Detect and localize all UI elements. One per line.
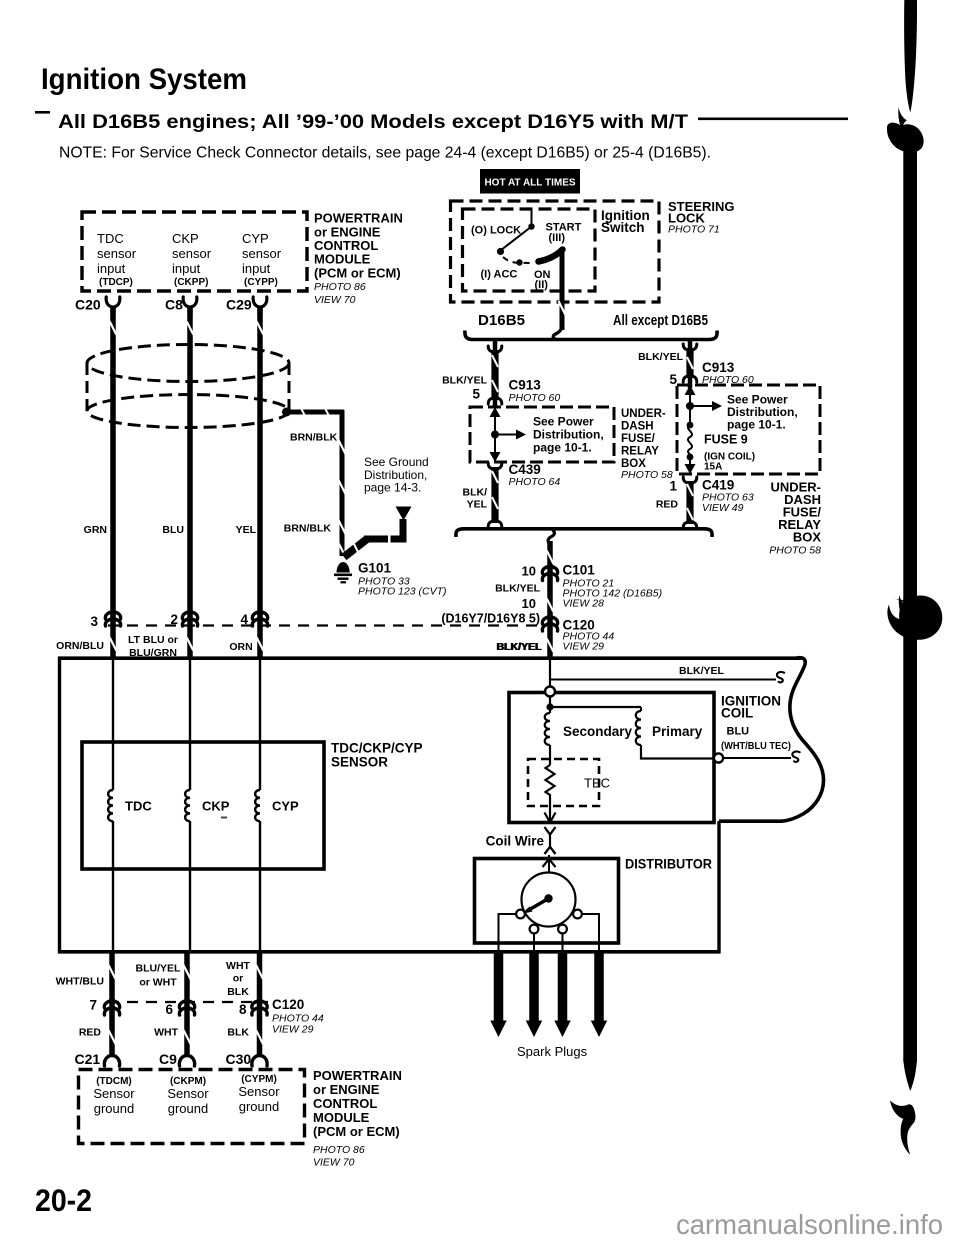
big box right edge — [717, 821, 720, 953]
svg-text:3: 3 — [90, 614, 98, 629]
CYP pickup coil — [255, 790, 260, 821]
svg-text:BRN/BLK: BRN/BLK — [290, 432, 338, 444]
big box bottom edge — [58, 950, 721, 954]
svg-text:POWERTRAIN: POWERTRAIN — [313, 1068, 402, 1083]
wire CYP inside box — [259, 658, 261, 790]
svg-text:MODULE: MODULE — [314, 252, 371, 267]
arrow right — [495, 434, 517, 436]
svg-text:D16B5: D16B5 — [478, 313, 525, 329]
svg-text:Sensor: Sensor — [167, 1086, 209, 1101]
ignition coil box — [509, 693, 714, 823]
svg-text:COIL: COIL — [721, 706, 753, 721]
wire left branch — [493, 339, 498, 408]
wire C120 to big box — [547, 639, 554, 652]
svg-text:Spark Plugs: Spark Plugs — [517, 1044, 588, 1059]
svg-text:LT BLU or: LT BLU or — [128, 634, 178, 646]
BLU line to squiggle — [723, 757, 791, 759]
svg-text:RED: RED — [79, 1027, 102, 1039]
switch: pivot dot — [528, 223, 534, 229]
svg-text:See Ground: See Ground — [364, 455, 429, 469]
junction dot C (fuse bottom) — [687, 454, 694, 461]
svg-text:ORN: ORN — [229, 641, 252, 653]
connector pinch wire2 — [182, 612, 197, 619]
coil wire symbols — [545, 827, 556, 835]
svg-text:TEC: TEC — [584, 776, 610, 791]
fork connector C29 — [253, 297, 259, 307]
wire C101-C120 — [547, 599, 554, 612]
svg-text:Switch: Switch — [601, 220, 645, 235]
svg-text:C30: C30 — [226, 1051, 252, 1067]
ground branch: bar 2 + riser — [391, 536, 407, 543]
svg-text:(II): (II) — [535, 279, 549, 291]
svg-text:15A: 15A — [704, 462, 722, 473]
distributor box — [475, 859, 619, 944]
gutter hook (bottom) — [890, 1101, 915, 1155]
wire TDC inside box — [112, 658, 114, 790]
svg-text:CKP: CKP — [202, 799, 230, 814]
svg-text:or WHT: or WHT — [139, 977, 177, 989]
svg-text:BLK/YEL: BLK/YEL — [638, 351, 684, 363]
connector C101 — [542, 567, 557, 574]
svg-text:or ENGINE: or ENGINE — [313, 1082, 380, 1097]
wire right branch — [688, 339, 693, 388]
gutter bar (upper) — [903, 143, 917, 600]
svg-text:VIEW 70: VIEW 70 — [313, 1157, 355, 1169]
ground branch: diagonal — [344, 539, 367, 557]
svg-text:(CKPP): (CKPP) — [174, 277, 208, 288]
svg-text:7: 7 — [89, 998, 97, 1013]
svg-text:PHOTO 60: PHOTO 60 — [702, 374, 754, 386]
svg-text:10: 10 — [522, 596, 536, 611]
svg-text:ORN/BLU: ORN/BLU — [56, 640, 104, 652]
steering lock outer dashed box — [451, 201, 660, 302]
svg-text:PHOTO 123 (CVT): PHOTO 123 (CVT) — [358, 586, 447, 598]
primary winding — [640, 707, 642, 711]
subheading rule — [698, 118, 848, 121]
switch: feed stub from box top — [531, 209, 533, 226]
secondary winding — [545, 713, 550, 745]
svg-text:PHOTO 58: PHOTO 58 — [621, 469, 673, 481]
switch: dashed travel arc with ACC dot — [503, 257, 531, 263]
svg-text:BLK: BLK — [227, 986, 249, 998]
svg-text:(WHT/BLU TEC): (WHT/BLU TEC) — [721, 740, 791, 752]
spark plug wire 1 with arrow — [494, 954, 504, 1021]
junction dot B (fuse top) — [687, 422, 694, 429]
svg-text:C913: C913 — [509, 378, 542, 393]
svg-text:BLU/YEL: BLU/YEL — [136, 963, 182, 975]
wire sensor 1 upper — [110, 317, 116, 658]
ground wire 1 — [109, 953, 115, 1056]
TEC dashed box — [528, 759, 599, 806]
BRN/BLK shield drain: vertical — [340, 410, 345, 556]
wire sensor 3 upper — [257, 317, 263, 658]
switch: arm to LOCK contact — [501, 227, 532, 251]
primary top link — [550, 706, 641, 708]
svg-text:C419: C419 — [702, 478, 734, 493]
ground wire 3 — [257, 953, 263, 1056]
fork connector C20 — [106, 297, 112, 307]
wire cap lead 3 — [562, 934, 564, 952]
switch: contact blade arc (ON/START) — [539, 250, 563, 262]
svg-text:DISTRIBUTOR: DISTRIBUTOR — [625, 857, 712, 872]
ground wire 2 — [184, 953, 190, 1056]
svg-text:6: 6 — [165, 1002, 173, 1017]
svg-text:YEL: YEL — [236, 524, 257, 536]
G101 ground symbol — [337, 562, 350, 573]
C120 dashed line (bottom) — [108, 1001, 268, 1003]
svg-text:TDC: TDC — [97, 231, 124, 246]
connector C120 — [542, 617, 557, 624]
arrow down — [490, 452, 501, 462]
svg-text:RED: RED — [656, 499, 679, 511]
svg-text:(O) LOCK: (O) LOCK — [471, 225, 521, 237]
BLK/YEL branch line — [550, 679, 776, 681]
wire sensor 1 to big box — [110, 638, 117, 651]
junction dot — [491, 431, 499, 439]
svg-text:BLU: BLU — [727, 726, 750, 738]
primary bottom link — [641, 745, 714, 759]
svg-text:PHOTO 60: PHOTO 60 — [509, 392, 561, 404]
svg-text:BLK: BLK — [227, 1027, 249, 1039]
switch: LOCK contact dot — [497, 248, 504, 255]
wire cap lead 2 — [533, 934, 535, 952]
svg-text:TDC: TDC — [125, 799, 152, 814]
svg-text:PHOTO 86: PHOTO 86 — [313, 1144, 365, 1156]
svg-text:(D16Y7/D16Y8 5): (D16Y7/D16Y8 5) — [441, 612, 540, 626]
svg-text:input: input — [172, 261, 201, 276]
svg-text:input: input — [242, 261, 271, 276]
connector C120 pin 7 interface — [104, 1001, 119, 1008]
svg-text:Distribution,: Distribution, — [533, 428, 604, 442]
gutter curl (top) — [898, 108, 907, 130]
svg-text:YEL: YEL — [467, 499, 488, 511]
svg-text:input: input — [97, 261, 126, 276]
wire CKP inside box — [189, 658, 191, 790]
wire end feet at C21 — [109, 1030, 116, 1044]
gutter taper tip — [903, 1058, 917, 1091]
TEC resistor — [546, 765, 555, 798]
coil top terminal — [545, 687, 555, 697]
spark plug wire 4 with arrow — [594, 954, 604, 1021]
junction dot A (fuse box tap) — [686, 402, 694, 410]
top option bracket — [465, 331, 717, 340]
svg-text:CKP: CKP — [172, 231, 199, 246]
arrow right — [690, 405, 713, 407]
shield junction dot — [282, 408, 291, 417]
svg-text:RELAY: RELAY — [621, 446, 659, 458]
svg-text:VIEW 29: VIEW 29 — [563, 641, 605, 653]
svg-text:sensor: sensor — [97, 246, 137, 261]
svg-text:page 10-1.: page 10-1. — [727, 418, 786, 432]
svg-text:C21: C21 — [75, 1051, 101, 1067]
cap contact circle 3 — [558, 925, 567, 934]
PCM ground dashed box — [79, 1070, 305, 1144]
connector C913 (left) — [491, 350, 498, 400]
svg-text:CONTROL: CONTROL — [313, 1096, 377, 1111]
svg-text:Sensor: Sensor — [238, 1084, 280, 1099]
wire sensor 3 to big box — [257, 638, 264, 651]
svg-text:(PCM or ECM): (PCM or ECM) — [314, 266, 401, 281]
svg-text:page 10-1.: page 10-1. — [533, 441, 592, 455]
wire cap lead 1 — [499, 914, 517, 951]
svg-text:HOT AT ALL TIMES: HOT AT ALL TIMES — [484, 178, 575, 189]
svg-text:C8: C8 — [165, 297, 183, 313]
C120 dashed connector line — [108, 624, 545, 626]
svg-text:CYP: CYP — [242, 231, 269, 246]
svg-text:C9: C9 — [159, 1051, 177, 1067]
svg-text:C913: C913 — [702, 360, 735, 375]
secondary line into TEC — [549, 745, 551, 765]
svg-text:1: 1 — [669, 479, 677, 494]
svg-text:10: 10 — [522, 564, 536, 579]
svg-text:(I) ACC: (I) ACC — [481, 269, 518, 281]
cap contact circle 1 — [516, 910, 525, 919]
svg-text:VIEW 49: VIEW 49 — [702, 502, 744, 514]
svg-text:Ignition System: Ignition System — [41, 63, 247, 96]
svg-text:PHOTO 64: PHOTO 64 — [509, 476, 561, 488]
svg-text:UNDER-: UNDER- — [621, 408, 666, 420]
svg-text:(PCM or ECM): (PCM or ECM) — [313, 1124, 400, 1139]
svg-text:(CYPP): (CYPP) — [244, 277, 278, 288]
wire sensor 2 upper — [187, 317, 193, 658]
svg-text:BRN/BLK: BRN/BLK — [284, 523, 332, 535]
connector C439 — [491, 467, 498, 523]
connector C419 — [686, 481, 693, 524]
svg-text:POWERTRAIN: POWERTRAIN — [314, 211, 403, 226]
rotor circle — [522, 873, 576, 927]
connector C913 (right) — [686, 348, 693, 378]
svg-text:PHOTO 58: PHOTO 58 — [769, 545, 821, 557]
coil side terminal — [714, 753, 723, 762]
ground branch: bar 1 — [364, 536, 388, 543]
svg-text:5: 5 — [472, 387, 480, 402]
switch output wire — [560, 250, 565, 330]
connector C120 pin 8 interface — [252, 1001, 267, 1008]
svg-text:BLK/YEL: BLK/YEL — [495, 583, 541, 595]
svg-text:PHOTO 86: PHOTO 86 — [314, 281, 366, 293]
svg-text:C29: C29 — [226, 297, 252, 313]
svg-text:NOTE: For Service Check Connec: NOTE: For Service Check Connector detail… — [59, 145, 711, 162]
rotor feed line + arrow — [548, 855, 550, 896]
svg-text:WHT: WHT — [226, 960, 250, 972]
svg-text:MODULE: MODULE — [313, 1110, 370, 1125]
svg-text:ground: ground — [239, 1099, 279, 1114]
svg-text:carmanualsonline.info: carmanualsonline.info — [676, 1209, 943, 1240]
svg-text:VIEW 29: VIEW 29 — [272, 1024, 314, 1036]
internal arrow up — [494, 410, 496, 462]
svg-text:FUSE 9: FUSE 9 — [704, 433, 748, 447]
wire to C101 — [547, 541, 553, 658]
svg-text:FUSE/: FUSE/ — [621, 433, 656, 445]
shield cylinder left side — [86, 363, 89, 411]
svg-text:DASH: DASH — [621, 421, 654, 433]
svg-text:C101: C101 — [563, 563, 596, 578]
svg-text:Sensor: Sensor — [93, 1086, 135, 1101]
svg-text:ground: ground — [94, 1101, 134, 1116]
svg-text:BOX: BOX — [793, 530, 822, 545]
svg-text:Coil Wire: Coil Wire — [486, 834, 545, 849]
stray mark — [221, 817, 227, 819]
rotor center dot — [544, 894, 552, 902]
hot-at-all-times box — [480, 169, 580, 194]
ignition switch inner dashed box — [463, 209, 596, 291]
svg-text:SENSOR: SENSOR — [331, 755, 388, 770]
svg-text:(III): (III) — [549, 232, 566, 244]
svg-text:TDC/CKP/CYP: TDC/CKP/CYP — [331, 741, 423, 756]
BRN/BLK shield drain: horizontal — [289, 410, 344, 415]
junction dot under terminal — [549, 696, 551, 713]
cap contact circle 2 — [530, 925, 539, 934]
bracket pigtail down — [548, 530, 554, 544]
connector C120 pin 6 interface — [179, 1001, 194, 1008]
internal line + arrow up — [689, 388, 691, 425]
CKP pickup coil — [185, 790, 190, 821]
big box top edge — [58, 656, 801, 660]
svg-text:C20: C20 — [75, 297, 101, 313]
squiggle end BLK/YEL — [777, 672, 784, 682]
rotor arm — [527, 899, 549, 912]
torn page bottom edge — [719, 819, 783, 823]
svg-text:See Power: See Power — [533, 415, 594, 429]
tick dash left of subheading — [35, 111, 50, 114]
torn page curve — [781, 658, 824, 822]
big box left edge — [58, 657, 61, 954]
spark plug wire 3 with arrow — [558, 954, 568, 1021]
svg-text:All except D16B5: All except D16B5 — [613, 313, 708, 329]
TDC pickup coil — [108, 790, 113, 821]
svg-text:PHOTO 71: PHOTO 71 — [668, 224, 720, 236]
line + arrow down — [689, 457, 691, 471]
svg-text:BLU: BLU — [162, 524, 184, 536]
wire cap lead 4 — [582, 914, 599, 951]
svg-text:or: or — [233, 973, 244, 985]
wire sensor 2 to big box — [187, 638, 194, 651]
svg-text:BLK/YEL: BLK/YEL — [442, 375, 488, 387]
svg-text:WHT/BLU: WHT/BLU — [56, 976, 104, 988]
svg-text:20-2: 20-2 — [35, 1182, 92, 1218]
wire end feet at C9 — [184, 1030, 191, 1044]
svg-text:(TDCP): (TDCP) — [99, 277, 133, 288]
shield cylinder bottom ellipse — [87, 395, 289, 428]
svg-text:VIEW 28: VIEW 28 — [563, 598, 605, 610]
gutter blob (middle) — [887, 595, 942, 639]
see power distribution dashed box (left) — [470, 407, 614, 462]
sensor box — [82, 742, 324, 869]
ground branch: arrowhead down — [396, 507, 412, 521]
svg-text:sensor: sensor — [172, 246, 212, 261]
svg-text:WHT: WHT — [154, 1027, 178, 1039]
spark plug wire 2 with arrow — [529, 954, 539, 1021]
shield cylinder right side — [288, 363, 291, 411]
PCM dashed box (top) — [82, 212, 307, 291]
bracket pigtail to switch wire — [553, 323, 562, 339]
svg-text:C439: C439 — [509, 462, 541, 477]
fuse element — [688, 425, 692, 457]
BLK/YEL feed line inside box — [549, 658, 551, 687]
svg-text:BLK/: BLK/ — [463, 487, 488, 499]
fork connector C8 — [183, 297, 189, 307]
shield cylinder top ellipse — [87, 345, 289, 382]
gutter bar (lower) — [903, 598, 917, 1062]
svg-text:All D16B5 engines; All ’99-’00: All D16B5 engines; All ’99-’00 Models ex… — [58, 111, 688, 133]
svg-text:8: 8 — [239, 1002, 247, 1017]
svg-text:ground: ground — [168, 1101, 208, 1116]
svg-text:GRN: GRN — [84, 524, 107, 536]
secondary output + arrow — [549, 798, 551, 821]
bottom option bracket — [456, 529, 712, 537]
connector pinch wire1 — [105, 612, 120, 619]
cap contact circle 4 — [573, 910, 582, 919]
svg-text:BLK/YEL: BLK/YEL — [679, 665, 725, 677]
svg-text:G101: G101 — [358, 561, 392, 576]
gutter spike (top) — [904, 0, 917, 113]
connector pinch wire3 — [252, 612, 267, 619]
svg-text:CYP: CYP — [272, 799, 299, 814]
wire end feet at C30 — [256, 1030, 263, 1044]
svg-text:VIEW 70: VIEW 70 — [314, 294, 356, 306]
svg-text:sensor: sensor — [242, 246, 282, 261]
svg-text:C120: C120 — [272, 997, 304, 1012]
svg-text:5: 5 — [669, 372, 677, 387]
svg-text:Primary: Primary — [652, 724, 703, 739]
svg-text:Secondary: Secondary — [563, 724, 633, 739]
fuse dashed box (right) — [677, 385, 820, 474]
svg-text:BLK/YEL: BLK/YEL — [497, 641, 543, 653]
svg-text:page 14-3.: page 14-3. — [364, 481, 421, 495]
